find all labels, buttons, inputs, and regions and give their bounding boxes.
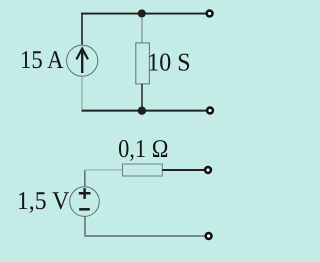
wire: upper rail right segment from resistor to terminal	[162, 169, 204, 171]
terminal: bottom-right open circle (top circuit)	[207, 108, 213, 114]
terminal: bottom-right open circle (bottom circuit)	[206, 233, 212, 239]
terminal: top-right open circle	[207, 11, 213, 17]
current source I1 arrow shaft	[81, 49, 83, 73]
wire: top-left vertical from current source to top rail	[81, 13, 83, 45]
wire: top rail horizontal	[81, 13, 205, 15]
wire: lead from resistor G to bottom rail	[141, 84, 143, 111]
wire: lead from current source bottom to bottom rail	[81, 76, 83, 109]
node: bottom junction	[138, 107, 146, 115]
terminal: upper-right open circle (bottom circuit)	[205, 167, 211, 173]
svg-text:1,5 V: 1,5 V	[17, 186, 70, 215]
wire: lead from top junction to resistor G	[141, 17, 143, 43]
resistor R1 0,1 Ohm (body)	[123, 164, 163, 176]
svg-text:15 A: 15 A	[20, 45, 64, 74]
voltage source minus sign	[79, 208, 90, 211]
wire: bottom rail horizontal (top circuit)	[82, 110, 206, 112]
voltage source V1 (circle)	[70, 187, 100, 217]
current source I1 (circle)	[67, 45, 98, 76]
resistor G1 10 S (body)	[136, 43, 150, 84]
wire: vertical from voltage source top to upper rail (bottom circuit)	[84, 170, 86, 187]
wire: bottom rail horizontal (bottom circuit)	[84, 235, 205, 237]
voltage source plus sign	[79, 188, 91, 199]
current source I1 arrow head	[76, 49, 88, 60]
wire: upper rail left segment to resistor R	[84, 169, 122, 171]
node: top junction	[138, 9, 146, 17]
wire: lead from voltage source bottom to bottom rail	[84, 216, 86, 236]
svg-text:10 S: 10 S	[147, 48, 190, 77]
svg-text:0,1 Ω: 0,1 Ω	[118, 134, 168, 163]
